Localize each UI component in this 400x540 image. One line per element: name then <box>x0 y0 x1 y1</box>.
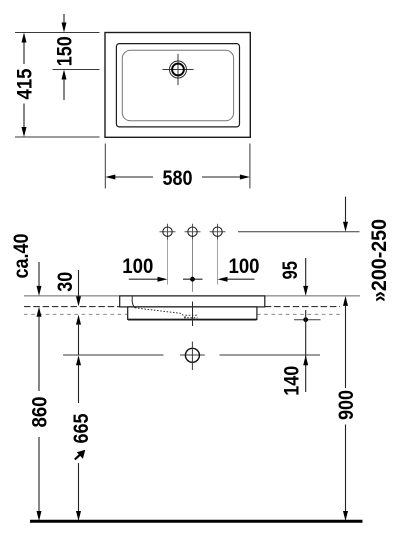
svg-text:140: 140 <box>280 366 303 396</box>
faucet mounting hole left <box>160 224 176 240</box>
dimension 860 line lower <box>38 437 40 512</box>
variable height arrow symbol <box>75 450 86 460</box>
dimension 415 line <box>23 42 25 128</box>
drain level line through trap <box>180 354 205 356</box>
basin outer outline (plan) <box>105 33 250 138</box>
faucet mounting hole right <box>210 224 226 240</box>
svg-text:100: 100 <box>229 255 260 278</box>
dimension ca.40 arrow (down to rim top) <box>38 262 40 287</box>
dimension 30 arrow (up to counter bottom) <box>76 315 81 325</box>
drain level line right segment <box>220 354 321 356</box>
faucet hole level line to right <box>238 231 360 233</box>
dimension 100 left line <box>129 278 158 280</box>
dimension 580 extension line left <box>104 144 106 189</box>
svg-text:95: 95 <box>279 261 302 280</box>
extension line from centre hole <box>192 240 194 292</box>
basin body (elevation) <box>128 307 257 320</box>
dimension 415 arrow down <box>22 127 27 137</box>
svg-text:415: 415 <box>14 68 37 99</box>
svg-text:»200-250: »200-250 <box>368 219 391 302</box>
dimension 900 arrow (up to rim top) <box>343 296 348 306</box>
fixing point dot <box>303 317 308 322</box>
drain trap vertical centre line <box>191 342 193 371</box>
drain recess dotted detail <box>184 315 198 318</box>
extension line from left hole <box>167 240 169 285</box>
dimension 900 arrow (down to floor) <box>343 511 348 521</box>
faucet hole (plan) outer circle <box>170 61 187 78</box>
dimension 860 line upper <box>38 316 40 391</box>
drain trap circle <box>185 348 199 362</box>
dimension 580 arrow left <box>105 175 115 180</box>
svg-text:860: 860 <box>28 397 51 428</box>
basin bowl edge (plan, rounded) <box>122 50 233 121</box>
svg-text:30: 30 <box>54 272 77 292</box>
dimension 100 right arrow <box>218 277 228 282</box>
basin rim (elevation) <box>120 296 265 307</box>
dimension 95/140 shaft through dot <box>305 310 307 392</box>
faucet hole (plan) crosshair <box>162 54 193 85</box>
svg-text:900: 900 <box>335 390 358 420</box>
drain level line left segment <box>63 354 164 356</box>
dimension 30 arrow (down to counter top) <box>78 270 80 297</box>
countertop bottom dashed line right <box>257 313 340 315</box>
dimension 95 arrow (down to rim top) <box>305 258 307 287</box>
centre reference stub line <box>183 278 203 280</box>
dimension 860 arrow (up to counter top) <box>37 307 42 317</box>
dimension 860 arrow (down to floor) <box>37 511 42 521</box>
faucet hole (plan) inner circle <box>172 64 184 76</box>
dimension 200-250 line upper <box>345 197 347 223</box>
dimension 415 arrow up <box>22 33 27 43</box>
svg-text:ca.40: ca.40 <box>10 234 33 279</box>
extension line from right hole <box>217 240 219 285</box>
svg-text:580: 580 <box>163 167 193 190</box>
dimension 150 arrow below (outside, pointing up) <box>62 70 67 80</box>
dimension 200-250 arrow (down to faucet level) <box>343 222 348 232</box>
countertop top dashed line right <box>265 306 340 308</box>
basin rim inner edge (plan) <box>116 44 239 127</box>
dimension 900 line upper <box>345 305 347 388</box>
dimension 415 extension line bottom <box>15 136 100 138</box>
drain centre line (through basin) <box>192 302 194 327</box>
dimension 665 arrow (down to floor) <box>76 511 81 521</box>
dimension 140 arrow (up at drain level) <box>303 355 308 365</box>
dimension 100 left arrow <box>158 277 168 282</box>
countertop bottom dashed line left <box>24 313 127 315</box>
dimension 150 arrow above (outside, pointing down) <box>63 14 65 24</box>
dimension 580 arrow right <box>240 175 250 180</box>
svg-text:665: 665 <box>70 413 93 443</box>
dimension 100 right line <box>227 278 255 280</box>
basin bottom slope dotted line <box>135 308 186 318</box>
rim top level line <box>24 295 360 297</box>
dimension 900 line lower <box>345 425 347 512</box>
dimension 580 extension line right <box>249 144 251 189</box>
floor line <box>30 520 363 523</box>
faucet mounting hole centre <box>185 224 201 240</box>
dimension 415 extension line top <box>15 32 100 34</box>
basin bottom extension line right <box>294 319 321 321</box>
svg-text:150: 150 <box>53 36 76 66</box>
dimension 665 line lower <box>78 463 80 512</box>
dimension 580 line <box>115 176 240 178</box>
dimension 150 extension line at hole level <box>53 69 100 71</box>
countertop top dashed line left <box>24 306 120 308</box>
basin inner wall curve (section) <box>132 297 135 308</box>
centre reference dot <box>190 277 195 282</box>
svg-text:100: 100 <box>122 255 153 278</box>
basin body bottom edge <box>128 319 257 321</box>
dimension 665 arrow (up to drain level) <box>76 355 81 365</box>
